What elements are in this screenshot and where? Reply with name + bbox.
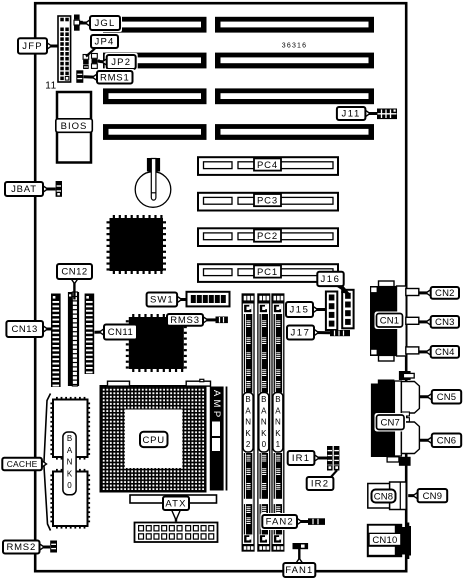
svg-text:B: B xyxy=(245,395,250,404)
svg-text:0: 0 xyxy=(67,481,72,490)
svg-text:N: N xyxy=(245,418,251,427)
svg-text:1: 1 xyxy=(276,440,281,449)
svg-text:CN12: CN12 xyxy=(61,267,87,278)
svg-text:J16: J16 xyxy=(320,274,340,285)
svg-text:CACHE: CACHE xyxy=(7,459,38,469)
svg-text:K: K xyxy=(275,429,281,438)
svg-text:JBAT: JBAT xyxy=(11,184,37,195)
svg-text:PC1: PC1 xyxy=(257,267,278,278)
svg-text:N: N xyxy=(261,418,267,427)
svg-text:P: P xyxy=(211,411,222,417)
svg-text:IR2: IR2 xyxy=(311,479,329,490)
svg-text:A: A xyxy=(275,406,281,415)
svg-text:CN10: CN10 xyxy=(372,535,397,546)
svg-text:A: A xyxy=(67,446,73,455)
svg-text:FAN2: FAN2 xyxy=(266,517,294,528)
svg-text:CN7: CN7 xyxy=(380,417,400,428)
svg-text:JP2: JP2 xyxy=(111,57,131,68)
svg-text:ATX: ATX xyxy=(165,498,186,509)
svg-text:JGL: JGL xyxy=(94,18,115,29)
svg-text:11: 11 xyxy=(45,81,56,92)
svg-text:RMS2: RMS2 xyxy=(6,542,36,553)
svg-text:JFP: JFP xyxy=(22,41,43,52)
svg-text:RMS1: RMS1 xyxy=(100,72,130,83)
svg-text:CN1: CN1 xyxy=(380,315,400,326)
svg-text:K: K xyxy=(67,469,73,478)
svg-text:A: A xyxy=(211,390,222,397)
svg-text:B: B xyxy=(261,395,266,404)
svg-text:36316: 36316 xyxy=(282,43,307,50)
svg-text:FAN1: FAN1 xyxy=(285,565,313,576)
svg-text:K: K xyxy=(261,429,267,438)
svg-text:CN2: CN2 xyxy=(435,288,455,299)
svg-text:CN11: CN11 xyxy=(108,327,134,338)
svg-text:CN6: CN6 xyxy=(437,435,457,446)
svg-text:CN5: CN5 xyxy=(437,392,457,403)
svg-text:N: N xyxy=(67,458,73,467)
svg-text:CN4: CN4 xyxy=(435,347,455,358)
svg-text:CN8: CN8 xyxy=(374,492,394,503)
svg-text:B: B xyxy=(67,434,72,443)
svg-text:J11: J11 xyxy=(341,109,360,120)
svg-text:CPU: CPU xyxy=(142,435,164,446)
svg-text:J17: J17 xyxy=(290,328,310,339)
svg-text:CN3: CN3 xyxy=(435,317,455,328)
svg-text:B: B xyxy=(275,395,280,404)
svg-text:2: 2 xyxy=(246,440,251,449)
svg-text:PC2: PC2 xyxy=(257,231,278,242)
svg-text:0: 0 xyxy=(262,440,267,449)
svg-text:M: M xyxy=(211,400,222,408)
svg-text:JP4: JP4 xyxy=(95,37,115,48)
svg-text:PC4: PC4 xyxy=(257,160,278,171)
svg-text:PC3: PC3 xyxy=(257,195,278,206)
svg-text:IR1: IR1 xyxy=(292,453,310,464)
svg-text:A: A xyxy=(245,406,251,415)
svg-text:K: K xyxy=(245,429,251,438)
svg-text:SW1: SW1 xyxy=(150,295,174,306)
svg-text:CN9: CN9 xyxy=(423,491,443,502)
svg-text:CN13: CN13 xyxy=(12,324,38,335)
svg-text:J15: J15 xyxy=(289,305,309,316)
svg-text:BIOS: BIOS xyxy=(61,121,88,132)
svg-text:A: A xyxy=(261,406,267,415)
svg-text:RMS3: RMS3 xyxy=(170,315,200,326)
svg-text:N: N xyxy=(275,418,281,427)
